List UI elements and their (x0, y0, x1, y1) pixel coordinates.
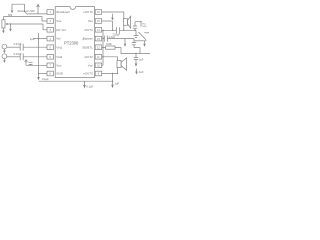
wire +OUT1 (102, 12, 124, 19)
node cap tap on long wire (135, 53, 136, 54)
input jack IN1 (2, 44, 7, 49)
svg-text:Bypass: Bypass (83, 37, 93, 41)
net stub arrow up (37, 5, 39, 14)
svg-text:SE/BTL: SE/BTL (82, 45, 93, 49)
svg-text:0.47µF: 0.47µF (14, 52, 23, 56)
svg-text:5: 5 (50, 46, 52, 49)
ground arrow top-left (11, 4, 13, 10)
svg-text:-OUT2: -OUT2 (84, 55, 93, 59)
capacitor C4 220uF plates (116, 27, 119, 33)
wire GND pin (39, 73, 48, 75)
svg-text:0.1µF: 0.1µF (87, 84, 94, 88)
svg-text:GND: GND (56, 72, 64, 76)
wire +OUT2 down to bus (112, 74, 114, 85)
wire C7 bottom to long wire (134, 48, 140, 54)
wire jack tip feed (135, 22, 141, 27)
jack2 ground stub (3, 59, 5, 61)
svg-text:Ext.: Ext. (142, 22, 146, 25)
node GND junction (38, 73, 39, 74)
svg-text:Vin1: Vin1 (56, 45, 62, 49)
input jack IN2 (2, 54, 7, 59)
svg-text:10: 10 (97, 65, 100, 68)
IC U1 PT2300 body (55, 7, 94, 78)
wiper ground stub (10, 24, 12, 29)
labels (8, 9, 147, 88)
switch SW1 lever (25, 12, 28, 15)
svg-text:Vin2: Vin2 (56, 55, 62, 59)
svg-text:DC Vol: DC Vol (56, 28, 66, 32)
speaker SP1 box (123, 19, 127, 26)
speaker SP1 cone (128, 16, 131, 28)
svg-text:1µF: 1µF (139, 70, 144, 74)
wire Vin1 (23, 46, 47, 48)
node (102, 47, 103, 48)
capacitor C5 on jack feed (134, 22, 136, 31)
pin boxes left (47, 10, 54, 15)
svg-text:Vcc: Vcc (88, 63, 94, 67)
pot bottom ground arrow (2, 31, 5, 34)
Vcc supply stub (25, 61, 27, 66)
svg-text:Vss: Vss (56, 19, 62, 23)
svg-text:+OUT1: +OUT1 (83, 10, 93, 14)
svg-text:PT2300: PT2300 (64, 40, 79, 45)
wire shutdown to pin 1 (28, 13, 47, 15)
ground bus bottom (39, 80, 113, 82)
svg-text:1µF: 1µF (139, 58, 144, 62)
ground arrow below C8 (135, 64, 138, 67)
speaker SP2 cone (121, 58, 127, 70)
capacitor C8 below long wire (135, 54, 137, 64)
capacitor C1 input1 (20, 44, 23, 51)
wire Vss right (102, 20, 113, 22)
node Vol junction (38, 38, 39, 39)
svg-text:14: 14 (97, 29, 100, 32)
speaker SP2 bottom stub (117, 68, 119, 74)
svg-text:1: 1 (50, 11, 52, 14)
node (134, 30, 135, 31)
svg-text:100k: 100k (106, 42, 112, 46)
svg-text:6: 6 (50, 56, 52, 59)
ground arrow onto Vss wire (112, 14, 114, 18)
wire shutdown top rail (12, 4, 25, 11)
vertical ground line (38, 33, 40, 77)
svg-text:1µF: 1µF (115, 81, 120, 85)
wire -OUT2 (102, 57, 118, 61)
wire SE/BTL (102, 47, 106, 49)
svg-text:+OUT2: +OUT2 (83, 72, 93, 76)
jack1 ground stub (3, 49, 5, 51)
svg-text:0.1µF: 0.1µF (42, 77, 49, 81)
pot wiper arrow (7, 23, 11, 25)
cap tap 1 on bus (84, 81, 86, 85)
wire Bypass (102, 38, 135, 40)
svg-text:13: 13 (97, 38, 100, 41)
ground arrow bottom left (37, 77, 40, 80)
svg-text:15: 15 (97, 20, 100, 23)
svg-text:2.2µF: 2.2µF (109, 35, 116, 39)
pin boxes right (95, 10, 102, 15)
pin numbers right (97, 11, 100, 76)
svg-text:8: 8 (50, 73, 52, 76)
wiper ground arrow head (9, 29, 12, 32)
speaker SP1 bottom stub (123, 25, 125, 30)
capacitor C3 Vcc bypass plates (29, 62, 33, 64)
headphone jack J1 sleeve (135, 30, 137, 36)
jack contact tick (144, 32, 149, 34)
speaker SP2 box (117, 60, 121, 67)
svg-text:7: 7 (50, 65, 52, 68)
svg-text:12: 12 (97, 46, 100, 49)
svg-text:11: 11 (97, 56, 100, 59)
capacitor C6 bypass plates (104, 36, 107, 42)
svg-text:Vss: Vss (88, 19, 94, 23)
wire +OUT2 (102, 73, 118, 75)
svg-text:0.47µF: 0.47µF (14, 42, 23, 46)
jack J2 stub (136, 69, 138, 72)
wire DC Vol (11, 24, 48, 30)
svg-text:Vcc: Vcc (56, 63, 62, 67)
pin names right (82, 10, 93, 76)
node wiper junction (10, 23, 11, 24)
svg-text:50k: 50k (8, 13, 13, 17)
jack NC contact bar (135, 40, 147, 42)
ground arrow right (144, 41, 146, 44)
pot bottom stub (2, 28, 4, 31)
svg-text:-OUT1: -OUT1 (84, 28, 93, 32)
svg-text:SPK: SPK (142, 26, 147, 28)
wire after resistor (115, 48, 150, 54)
ground arrow mid (124, 39, 126, 44)
svg-text:1µF: 1µF (30, 37, 35, 41)
svg-text:Vol: Vol (56, 37, 61, 41)
wire Vss down to out1 line (112, 21, 114, 30)
svg-text:4: 4 (50, 38, 52, 41)
capacitor C2 input2 (20, 53, 23, 60)
capacitor C7 se/btl plates (133, 39, 135, 48)
svg-text:Shutdown: Shutdown (56, 10, 70, 14)
vertical bus x103 (102, 30, 104, 65)
potentiometer VR1 body (2, 20, 5, 28)
wire pot top to Vss pin (3, 17, 47, 21)
wire Vin2 (23, 56, 47, 58)
svg-text:3: 3 (50, 29, 52, 32)
wire -OUT1 (102, 29, 137, 31)
jack switch lever (139, 32, 147, 40)
wire Vcc (26, 64, 47, 66)
wire Vol pin (34, 38, 48, 40)
resistor R1 100k body (106, 46, 116, 49)
svg-text:Shutdown SW: Shutdown SW (18, 9, 35, 13)
wire Vcc right (102, 64, 104, 66)
svg-text:2: 2 (50, 20, 52, 23)
pin numbers left (50, 11, 52, 76)
svg-text:16: 16 (97, 11, 100, 14)
svg-text:9: 9 (98, 73, 100, 76)
pot top stub (2, 17, 4, 20)
